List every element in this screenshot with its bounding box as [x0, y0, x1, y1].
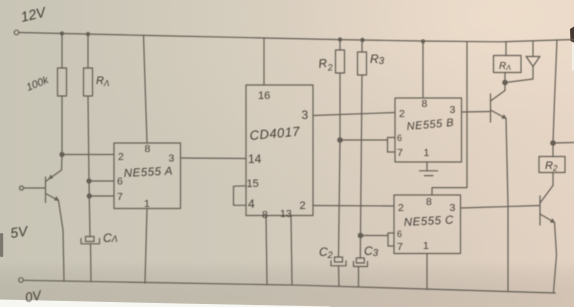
wire: Q3 emitter to 0V — [554, 223, 557, 293]
node G junction (wire exits right) — [551, 141, 555, 145]
svg-text:6: 6 — [397, 229, 402, 239]
capacitor C2 — [331, 257, 346, 286]
resistor R100k body — [58, 68, 67, 96]
svg-text:8: 8 — [422, 98, 428, 110]
wire: Q1 emitter down to 0V — [59, 201, 65, 282]
wire: rail drop to resistor 100k — [61, 34, 63, 68]
svg-text:8: 8 — [262, 209, 268, 221]
wire: node D down to C2 — [339, 140, 341, 257]
svg-text:1: 1 — [424, 147, 430, 159]
svg-text:7: 7 — [117, 191, 123, 203]
wire: R1 bottom lead down to C1 — [88, 96, 90, 237]
wire: +12V drop to U4 pin 8 (stepped) — [432, 42, 467, 195]
node: rail junction at R3 — [361, 38, 364, 41]
wire: U3 pin6-pin7 strap — [388, 138, 396, 153]
svg-text:7: 7 — [397, 241, 403, 253]
wire: U2 pin 13 to 0V — [291, 216, 292, 286]
wire: U2 pin 8 to 0V — [266, 216, 267, 285]
wire: U1 pin 7 — [89, 195, 114, 197]
svg-text:16: 16 — [258, 90, 270, 102]
wire: U2 pin 2 to U4 pin 2 — [313, 205, 394, 208]
wire: U1 pin 2 to node A — [62, 154, 114, 156]
wire: R2 bottom to node D — [339, 73, 341, 140]
wire: U1 pin 3 to U2 pin 14 — [181, 157, 247, 160]
wire: RA top lead to +12V — [505, 42, 507, 56]
resistor R2 body — [336, 50, 345, 73]
wire: rail drop to R2b / node G — [553, 40, 557, 157]
svg-text:2: 2 — [118, 151, 124, 163]
svg-text:13: 13 — [280, 208, 292, 220]
svg-text:7: 7 — [397, 147, 403, 159]
svg-text:2: 2 — [300, 200, 306, 212]
svg-text:3: 3 — [450, 104, 456, 116]
svg-text:3: 3 — [302, 108, 309, 122]
wire: U2 pin 3 to U3 pin 2 — [313, 113, 395, 116]
svg-text:1: 1 — [423, 240, 429, 252]
wire: U3 pin 8 to +12V — [422, 41, 424, 98]
node F junction (Q2 collector / relay RA / diode D1) — [503, 80, 507, 84]
wire: U4 pin6-pin7 strap — [388, 233, 394, 246]
wire: 0V bottom rail — [23, 280, 555, 293]
wire: Q2 emitter to 0V — [506, 119, 508, 291]
svg-text:8: 8 — [426, 196, 432, 208]
svg-text:3: 3 — [169, 153, 175, 165]
wire: base lead Q1 — [24, 187, 46, 189]
capacitor C1 — [81, 237, 100, 282]
wire: +12V top rail — [19, 33, 574, 42]
white paper edge bottom-left — [0, 300, 330, 307]
node B junction (R1 leg / U1 pin6) — [87, 179, 91, 183]
wire: rail drop to resistor R2 — [339, 40, 341, 51]
transistor Q1 — [46, 170, 62, 203]
wire: U3 pin 3 to Q2 base — [462, 111, 491, 114]
wire: Q2 collector up to node F — [504, 73, 506, 91]
12V terminal — [14, 30, 19, 35]
IC U2 CD4017 box — [246, 85, 313, 216]
dark smudge left edge — [0, 233, 3, 257]
svg-text:2: 2 — [399, 108, 405, 120]
svg-text:6: 6 — [117, 176, 123, 188]
wire: rail drop to resistor R1 — [87, 34, 89, 68]
wire: U2 pin15-pin4 strap — [234, 186, 247, 206]
IC U3 NE555B box — [395, 98, 462, 162]
capacitor C3 — [354, 258, 368, 286]
svg-text:NE555 A: NE555 A — [124, 165, 174, 180]
wire: node D to U3 pin6/7 strap — [340, 139, 388, 141]
relay coil RA box — [494, 56, 522, 73]
node C junction (R1 leg / U1 pin7) — [87, 194, 91, 198]
0V terminal — [19, 278, 24, 283]
node E junction (R3 / U4 pins 6,7 / C3) — [358, 233, 362, 237]
svg-text:8: 8 — [145, 143, 151, 155]
node D junction (R2 / U3 pins 6,7 / C2) — [338, 138, 342, 142]
resistor R2b box — [539, 157, 565, 173]
svg-text:4: 4 — [248, 197, 255, 211]
wire: R2b bottom to Q3 collector — [552, 173, 554, 186]
ground symbol under U3 — [420, 171, 438, 176]
wire: 100k bottom lead to node A — [61, 96, 63, 155]
dark wedge photo artifact top-right — [570, 27, 574, 43]
node A junction (Q1 collector / 100k / U1 pin2) — [60, 153, 64, 157]
node: rail junction at 100k — [61, 32, 64, 35]
transistor Q1 base terminal — [20, 186, 24, 190]
wire: U3 pin 1 to ground — [426, 162, 428, 170]
diode D1 — [506, 42, 541, 83]
svg-text:15: 15 — [247, 178, 259, 190]
wire: node E to U4 pin6/7 strap — [361, 235, 389, 237]
IC U4 NE555C box — [394, 195, 461, 254]
svg-text:14: 14 — [248, 152, 262, 166]
svg-text:6: 6 — [397, 133, 402, 143]
wire: U1 pin 6 — [89, 180, 114, 182]
wire: node G to right edge — [553, 142, 574, 145]
resistor R1 body — [84, 68, 93, 96]
node: rail junction at R2 — [339, 38, 342, 41]
svg-text:CΛ: CΛ — [103, 231, 118, 245]
wire: U2 pin 16 to +12V — [263, 38, 265, 85]
svg-text:1: 1 — [144, 198, 150, 210]
wire: U4 pin 1 to 0V — [426, 254, 428, 290]
resistor R3 body — [358, 52, 367, 75]
wire: rail drop to resistor R3 — [361, 40, 363, 52]
wire: rail drop to U1 pin 8 — [144, 35, 148, 143]
node: rail junction at U3 pin8 — [422, 40, 425, 43]
white sliver right edge — [572, 44, 574, 71]
wire: node E down to C3 — [359, 236, 361, 259]
svg-text:2: 2 — [398, 202, 404, 214]
wire: U4 pin 3 to Q3 base — [461, 206, 541, 209]
svg-text:3: 3 — [450, 202, 456, 214]
transistor Q3 — [540, 186, 555, 226]
transistor Q2 — [491, 91, 507, 123]
wire: Q1 collector up to node A — [61, 155, 64, 171]
wire: R3 bottom to node E — [361, 75, 363, 236]
op-amp U1 NE555A box — [114, 143, 181, 209]
node: rail junction at R1 — [87, 33, 90, 36]
wire: U1 pin 1 to 0V rail — [145, 209, 147, 284]
